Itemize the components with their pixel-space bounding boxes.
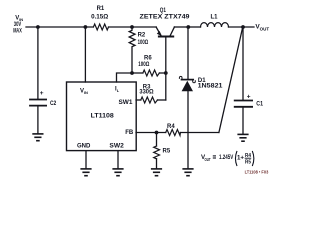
svg-text:R2: R2 — [138, 33, 146, 39]
svg-text:100Ω: 100Ω — [138, 40, 149, 46]
svg-text:R6: R6 — [144, 56, 152, 62]
svg-text:1.245V: 1.245V — [219, 154, 234, 161]
svg-text:L1: L1 — [211, 15, 219, 21]
svg-text:LT1108 • F03: LT1108 • F03 — [245, 170, 269, 175]
svg-text:SW2: SW2 — [109, 144, 124, 150]
svg-text:1N5821: 1N5821 — [198, 84, 224, 90]
svg-text:+: + — [240, 154, 244, 161]
svg-text:0.15Ω: 0.15Ω — [91, 15, 108, 21]
svg-text:FB: FB — [125, 130, 134, 136]
svg-text:100Ω: 100Ω — [138, 62, 149, 68]
svg-text:330Ω: 330Ω — [139, 90, 153, 96]
svg-text:+: + — [40, 90, 44, 97]
svg-text:+: + — [247, 94, 251, 101]
svg-text:R5: R5 — [163, 149, 171, 155]
svg-text:GND: GND — [77, 144, 91, 150]
svg-text:30V: 30V — [14, 22, 21, 28]
svg-text:R4: R4 — [167, 124, 175, 130]
svg-text:Q1: Q1 — [160, 8, 167, 14]
svg-text:R1: R1 — [97, 6, 105, 12]
svg-text:R5: R5 — [245, 159, 251, 165]
svg-text:SW1: SW1 — [119, 100, 134, 106]
svg-text:IN: IN — [84, 90, 88, 95]
svg-text:MAX: MAX — [13, 29, 22, 35]
svg-text:OUT: OUT — [205, 157, 211, 162]
svg-text:C1: C1 — [256, 102, 263, 108]
svg-text:ZETEX ZTX749: ZETEX ZTX749 — [140, 14, 191, 20]
svg-text:OUT: OUT — [260, 26, 270, 31]
svg-text:LT1108: LT1108 — [91, 113, 115, 119]
svg-text:C2: C2 — [50, 101, 57, 107]
